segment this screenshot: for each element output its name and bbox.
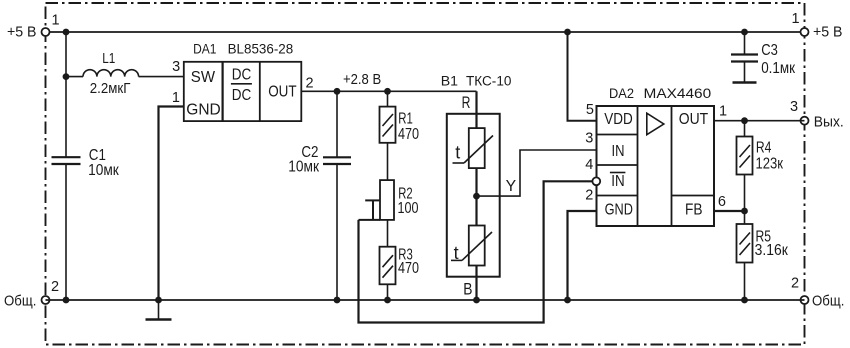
svg-text:t: t — [455, 143, 460, 163]
svg-text:2: 2 — [51, 279, 59, 295]
pin 1 DA2 OUT — [719, 104, 727, 120]
svg-text:Y: Y — [506, 178, 517, 195]
svg-text:В1: В1 — [441, 74, 458, 90]
svg-text:GND: GND — [605, 202, 633, 219]
thermistor lower (t) — [451, 226, 492, 266]
svg-text:C3: C3 — [761, 42, 778, 59]
inversion bubble pin 4 — [592, 177, 600, 185]
node: junction OUT / R4 — [741, 117, 748, 124]
wire: FB pin to divider — [714, 210, 745, 212]
svg-text:3: 3 — [585, 131, 593, 147]
node: junction C1 bottom rail — [63, 297, 70, 304]
terminal 3 right output — [790, 99, 844, 131]
node: junction R1 tap — [384, 88, 391, 95]
R2 wiper tap — [365, 200, 380, 220]
svg-text:470: 470 — [398, 260, 419, 277]
wire: OUT pin to output terminal — [714, 120, 805, 122]
ground symbol below DA1 — [146, 300, 172, 320]
node Y: junction thermistor midpoint — [473, 178, 516, 200]
wire: GND pin to bottom rail — [568, 211, 597, 300]
node: junction C3 branch — [741, 29, 748, 36]
resistor R1 470 — [380, 91, 420, 143]
capacitor C3 0.1uF — [731, 32, 795, 83]
wire: Y node to DA2 IN pin 3 — [477, 150, 597, 196]
svg-text:+5 В: +5 В — [7, 24, 37, 40]
terminal 2 right common — [791, 275, 844, 309]
svg-text:5: 5 — [586, 102, 594, 118]
svg-text:ТКС-10: ТКС-10 — [466, 74, 511, 90]
wire: C1 to bottom rail — [65, 164, 67, 300]
svg-text:DC: DC — [232, 87, 252, 104]
svg-text:2: 2 — [791, 275, 799, 291]
svg-text:B: B — [463, 281, 472, 299]
svg-text:100: 100 — [398, 200, 419, 217]
svg-text:2: 2 — [585, 188, 593, 204]
node B label (B1 bottom terminal) — [463, 281, 472, 299]
svg-text:10мк: 10мк — [88, 162, 119, 179]
pin 1 DA1 GND — [172, 90, 180, 106]
terminal 2 left common — [4, 279, 59, 310]
node: junction B1 bottom rail — [473, 297, 480, 304]
svg-text:L1: L1 — [102, 51, 115, 67]
node: junction L1 branch — [63, 73, 70, 80]
wire: thermistors middle link — [475, 168, 477, 225]
svg-text:DA2: DA2 — [609, 86, 634, 102]
node: junction C2 tap — [334, 88, 341, 95]
svg-text:VDD: VDD — [604, 111, 633, 128]
resistor R5 3.16k — [737, 211, 789, 300]
svg-text:1: 1 — [52, 12, 60, 28]
node: junction DA2 GND rail — [564, 297, 571, 304]
svg-text:4: 4 — [585, 157, 593, 173]
node: junction R5 bottom rail — [741, 297, 748, 304]
svg-text:1: 1 — [719, 104, 727, 120]
capacitor C1 10uF — [52, 147, 120, 179]
terminal 1 right +5V — [792, 11, 843, 41]
node: junction C2 bottom rail — [334, 297, 341, 304]
wire: R2 bottom node to DA2 inverting input (runs under rail) — [359, 181, 593, 322]
svg-text:3.16к: 3.16к — [755, 242, 788, 259]
svg-text:t: t — [454, 243, 459, 263]
svg-text:10мк: 10мк — [288, 158, 319, 175]
svg-text:OUT: OUT — [268, 83, 297, 100]
svg-text:OUT: OUT — [679, 111, 709, 128]
label: DA2 MAX4460 — [609, 86, 711, 102]
pin 5 DA2 VDD — [586, 102, 594, 118]
pin 3 DA2 IN — [585, 131, 593, 147]
pin 6 DA2 FB — [718, 194, 726, 210]
wire: B1 bottom to rail — [475, 266, 477, 301]
svg-text:R: R — [462, 94, 471, 112]
svg-text:3: 3 — [790, 99, 798, 115]
node: junction R3 bottom rail — [384, 297, 391, 304]
node: junction VDD branch — [564, 29, 571, 36]
svg-text:+5 В: +5 В — [813, 25, 843, 41]
thermistor upper (t) — [453, 128, 494, 168]
svg-text:3: 3 — [172, 59, 180, 75]
terminal 1 left +5V — [7, 12, 60, 40]
pin 4 DA2 inverting IN — [585, 157, 593, 173]
svg-text:1: 1 — [172, 90, 180, 106]
pin 2 DA1 OUT — [306, 76, 314, 92]
svg-text:BL8536-28: BL8536-28 — [228, 42, 294, 58]
svg-text:Общ.: Общ. — [4, 294, 36, 310]
svg-text:IN: IN — [612, 143, 625, 160]
pin 3 DA1 SW — [172, 59, 180, 75]
wire: R1 to R2 — [387, 143, 389, 180]
ground symbol below C3 — [733, 81, 757, 83]
wire: R2 bottom node to R3 — [359, 220, 388, 247]
inductor L1 2.2uH — [66, 51, 184, 97]
svg-text:+2.8 В: +2.8 В — [343, 72, 381, 88]
svg-text:Вых.: Вых. — [814, 115, 844, 131]
pin 2 DA2 GND — [585, 188, 593, 204]
svg-text:2: 2 — [306, 76, 314, 92]
svg-text:MAX4460: MAX4460 — [644, 86, 712, 102]
wire: bottom common rail — [46, 299, 805, 301]
wire: +5V top rail — [46, 31, 805, 33]
resistor R2 100 trimmer — [380, 180, 419, 220]
svg-text:1: 1 — [792, 11, 800, 27]
capacitor C2 10uF — [288, 91, 351, 300]
svg-text:2.2мкГ: 2.2мкГ — [90, 81, 131, 97]
op-amp DA2 MAX4460 — [597, 106, 715, 226]
svg-text:Общ.: Общ. — [812, 294, 844, 310]
converter DA1 BL8536-28 — [184, 62, 301, 121]
node R label (B1 top terminal) — [462, 94, 471, 112]
svg-text:123к: 123к — [756, 156, 784, 173]
wire: R3 to bottom rail — [387, 284, 389, 300]
node label +2.8V — [343, 72, 381, 88]
label: B1 TKC-10 — [441, 74, 512, 90]
svg-text:IN: IN — [611, 173, 624, 190]
svg-text:DA1: DA1 — [193, 42, 216, 58]
svg-text:GND: GND — [186, 102, 221, 119]
node: junction GND rail — [155, 297, 162, 304]
svg-text:R1: R1 — [398, 111, 413, 128]
sensor block B1 TKC-10 — [447, 114, 500, 277]
resistor R4 123k — [737, 121, 784, 211]
wire: left vertical +5V to C1 — [65, 32, 67, 157]
svg-text:R4: R4 — [756, 140, 772, 157]
wire: VDD pin to top rail — [568, 32, 597, 121]
svg-text:470: 470 — [398, 126, 419, 143]
resistor R3 470 — [380, 247, 420, 285]
node: junction top-left — [63, 29, 70, 36]
svg-text:6: 6 — [718, 194, 726, 210]
node: junction FB / R4 / R5 — [741, 208, 748, 215]
svg-text:0.1мк: 0.1мк — [761, 60, 795, 77]
svg-text:SW: SW — [191, 69, 216, 86]
label: DA1 BL8536-28 — [193, 42, 293, 58]
wire: +2.8V net DA1 OUT to B1 R input — [301, 91, 476, 128]
svg-text:DC: DC — [232, 66, 252, 83]
svg-text:FB: FB — [685, 202, 703, 219]
wire: DA1 GND pin to bottom rail — [159, 107, 184, 301]
